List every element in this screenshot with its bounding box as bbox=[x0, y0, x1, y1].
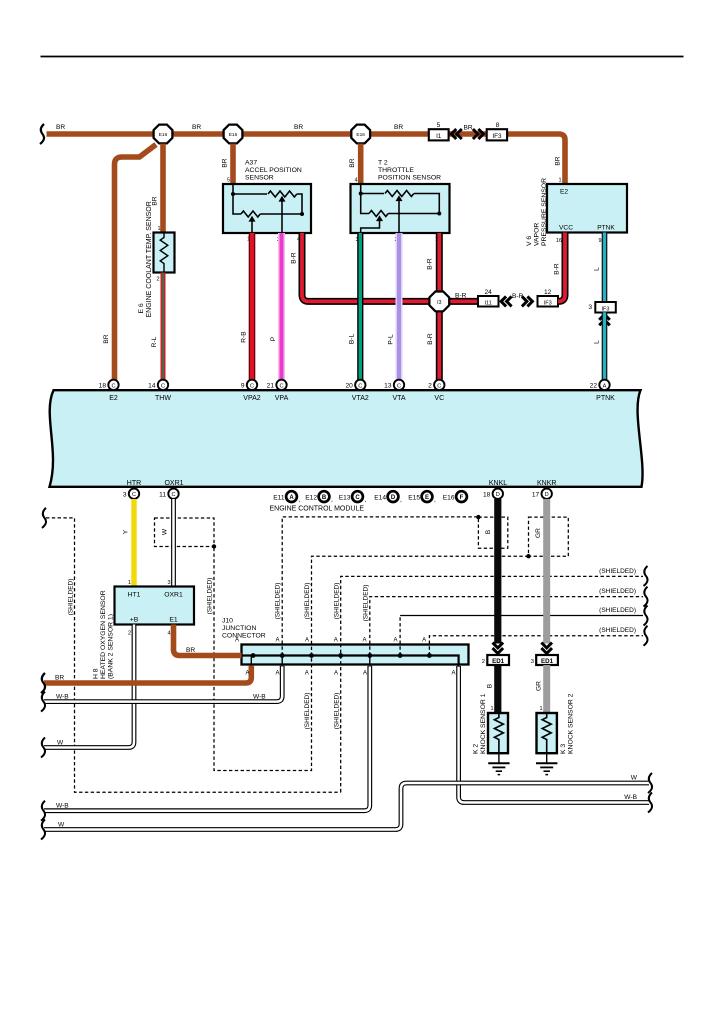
K2 resistor bbox=[494, 713, 503, 754]
svg-text:B: B bbox=[322, 495, 327, 501]
svg-text:(SHIELDED): (SHIELDED) bbox=[363, 585, 370, 622]
shield dashed vertical through J10 up to right margin line 1 bbox=[341, 576, 643, 792]
shield line solid from J10 to right margin line 3 bbox=[399, 616, 401, 656]
svg-text:C: C bbox=[358, 383, 362, 389]
svg-text:W-B: W-B bbox=[56, 803, 69, 810]
svg-text:THW: THW bbox=[155, 395, 171, 402]
svg-text:C: C bbox=[111, 383, 115, 389]
svg-text:W: W bbox=[631, 775, 638, 782]
wire B-L from T2 pin3 to VTA2 bbox=[357, 233, 363, 380]
pin 11 C OXR1 bbox=[159, 480, 183, 499]
svg-text:C: C bbox=[250, 383, 254, 389]
wire GR from KNKR down bbox=[543, 499, 550, 644]
svg-text:R-B: R-B bbox=[241, 331, 248, 343]
shield dashed from ECM line to knock B box bbox=[282, 517, 478, 656]
chevron arrows up-pointing bbox=[599, 315, 610, 326]
svg-text:B: B bbox=[485, 529, 492, 534]
pin 17 D KNKR bbox=[532, 480, 557, 499]
svg-text:22: 22 bbox=[590, 383, 598, 390]
break symbol right W-B bbox=[648, 793, 652, 813]
svg-text:3: 3 bbox=[167, 580, 170, 586]
svg-text:ED1: ED1 bbox=[492, 658, 505, 665]
ground symbol K3 bbox=[536, 754, 557, 775]
pin 20 C VTA2 bbox=[345, 380, 368, 402]
wire W from +B down to left margin bbox=[44, 625, 134, 748]
sensor E6 ENGINE COOLANT TEMP SENSOR box bbox=[154, 233, 175, 273]
J10 bus dots bbox=[251, 653, 256, 658]
ground pin E16 F bbox=[443, 491, 467, 502]
svg-text:PTNK: PTNK bbox=[596, 395, 615, 402]
svg-text:BR: BR bbox=[55, 675, 64, 682]
sensor T2 THROTTLE POSITION SENSOR box bbox=[351, 184, 450, 233]
svg-text:I1: I1 bbox=[436, 133, 442, 140]
break symbol left W-B lower bbox=[41, 801, 45, 821]
svg-text:L: L bbox=[594, 340, 601, 344]
wire W-B from J10 down-left to left margin bbox=[44, 666, 282, 702]
svg-text:3: 3 bbox=[588, 304, 592, 311]
break symbol left W bbox=[41, 738, 45, 758]
svg-text:14: 14 bbox=[148, 383, 156, 390]
node dot B box corner bbox=[476, 515, 480, 519]
connector ED1 on GR wire pin 3 bbox=[531, 655, 558, 665]
svg-text:ED1: ED1 bbox=[541, 658, 554, 665]
svg-text:9: 9 bbox=[598, 238, 601, 244]
ground pin E12 B bbox=[305, 491, 333, 503]
pin 2 C VC bbox=[428, 380, 444, 402]
wire Y from HTR to HT1 bbox=[131, 499, 136, 587]
pin 18 D KNKL bbox=[483, 480, 507, 499]
svg-text:JUNCTION: JUNCTION bbox=[222, 625, 256, 632]
svg-text:BR: BR bbox=[294, 124, 303, 131]
svg-text:C: C bbox=[397, 383, 401, 389]
svg-text:+B: +B bbox=[130, 617, 139, 624]
wiper arrow A37 R1 bbox=[279, 196, 286, 202]
junction I3 octagon bbox=[429, 292, 449, 312]
svg-text:W: W bbox=[162, 528, 169, 535]
svg-text:2: 2 bbox=[156, 277, 159, 283]
svg-text:IF3: IF3 bbox=[492, 133, 502, 140]
svg-text:(SHIELDED): (SHIELDED) bbox=[275, 583, 282, 620]
sensor K2 KNOCK SENSOR 1 box bbox=[488, 713, 508, 753]
shield dashed: left outer loop from top-left break down and around bbox=[46, 518, 341, 792]
wire BR from E16-2 to A37 bbox=[230, 144, 236, 184]
svg-text:(SHIELDED): (SHIELDED) bbox=[304, 583, 311, 620]
A37 internal circuit bbox=[233, 184, 302, 233]
T2 internal circuit bbox=[361, 184, 440, 233]
svg-text:C: C bbox=[279, 383, 283, 389]
sensor K3 KNOCK SENSOR 2 box bbox=[537, 713, 557, 753]
svg-text:W-B: W-B bbox=[253, 694, 266, 701]
svg-text:(SHIELDED): (SHIELDED) bbox=[599, 627, 636, 634]
svg-text:A: A bbox=[275, 671, 279, 677]
node dot A37 left bbox=[231, 192, 235, 196]
svg-text:9: 9 bbox=[241, 383, 245, 390]
svg-text:VTA: VTA bbox=[392, 395, 405, 402]
connector IF3 pin 3 on PTNK wire bbox=[588, 302, 615, 313]
svg-text:,: , bbox=[434, 497, 436, 504]
wire BR diagonal from E16-1 to E2 rail bbox=[115, 145, 157, 380]
svg-text:B-R: B-R bbox=[291, 252, 298, 264]
svg-text:BR: BR bbox=[222, 158, 229, 167]
svg-text:P: P bbox=[270, 336, 277, 341]
svg-text:BR: BR bbox=[555, 156, 562, 165]
connector IF3 pin 12 bbox=[538, 289, 559, 307]
break symbol top-left shield bbox=[42, 508, 46, 528]
wire BR from left margin to J10 bottom bbox=[44, 666, 251, 683]
svg-text:B-R: B-R bbox=[427, 258, 434, 270]
svg-text:(SHIELDED): (SHIELDED) bbox=[599, 568, 636, 575]
svg-text:E16: E16 bbox=[356, 132, 365, 138]
svg-text:I3: I3 bbox=[437, 300, 441, 306]
svg-text:R-L: R-L bbox=[151, 336, 158, 347]
node dot T2 left bbox=[359, 192, 363, 196]
svg-text:E: E bbox=[425, 495, 429, 501]
svg-text:K 2: K 2 bbox=[473, 744, 480, 754]
junction E16 octagon 2 bbox=[224, 125, 243, 144]
svg-text:OXR1: OXR1 bbox=[164, 592, 183, 599]
svg-text:E16: E16 bbox=[229, 132, 238, 138]
wire W-B from left margin up to J10 bbox=[44, 666, 370, 811]
svg-text:IF3: IF3 bbox=[544, 301, 552, 307]
svg-text:PRESSURE SENSOR: PRESSURE SENSOR bbox=[541, 178, 548, 246]
svg-text:(SHIELDED): (SHIELDED) bbox=[304, 693, 311, 730]
svg-text:C: C bbox=[132, 492, 136, 498]
svg-text:BR: BR bbox=[394, 124, 403, 131]
svg-text:D: D bbox=[391, 495, 396, 501]
svg-text:GR: GR bbox=[536, 681, 543, 691]
svg-text:B-R: B-R bbox=[554, 263, 561, 275]
svg-text:F: F bbox=[460, 495, 464, 501]
svg-text:4: 4 bbox=[167, 631, 170, 637]
wiper arrow T2 R2 bbox=[376, 215, 383, 221]
wire R-B from A37 pin1 to VPA2 bbox=[249, 233, 256, 380]
node dot shield W box corner bbox=[212, 544, 216, 548]
pin 9 C VPA2 bbox=[241, 380, 261, 402]
pin 22 A PTNK bbox=[590, 380, 616, 402]
junction E16 octagon 3 bbox=[351, 125, 370, 144]
wiper arrow T2 R1 bbox=[396, 195, 403, 201]
wire B-R from T2 pin1 down to junction I3 bbox=[436, 233, 443, 293]
svg-text:,: , bbox=[365, 497, 367, 504]
svg-text:PTNK: PTNK bbox=[597, 225, 615, 232]
svg-text:VC: VC bbox=[434, 395, 444, 402]
wire W-B from J10 right end down to right margin bbox=[459, 666, 649, 803]
wire B from KNKL down bbox=[494, 499, 501, 644]
svg-text:3: 3 bbox=[123, 492, 127, 499]
svg-text:(SHIELDED): (SHIELDED) bbox=[207, 578, 214, 615]
svg-text:8: 8 bbox=[496, 122, 500, 129]
wire BR from E16-3 to T2 bbox=[358, 144, 364, 184]
svg-text:D: D bbox=[496, 492, 500, 498]
connector I11 pin 24 bbox=[478, 289, 499, 307]
svg-text:D: D bbox=[545, 492, 549, 498]
J10 bus line bbox=[242, 656, 459, 667]
E6 resistor bbox=[160, 233, 168, 273]
svg-text:V 6: V 6 bbox=[526, 236, 533, 246]
svg-text:E14: E14 bbox=[374, 495, 386, 502]
svg-text:2: 2 bbox=[482, 659, 485, 665]
svg-text:E15: E15 bbox=[408, 495, 420, 502]
svg-text:VTA2: VTA2 bbox=[352, 395, 369, 402]
pin 3 C HTR bbox=[123, 480, 141, 499]
svg-text:W-B: W-B bbox=[624, 794, 637, 801]
connector IF3 pin 8 bbox=[487, 122, 507, 140]
ground symbol K2 bbox=[488, 754, 509, 775]
junction connector J10 bar bbox=[242, 645, 469, 665]
svg-text:W-B: W-B bbox=[56, 694, 69, 701]
chevron arrows left-pointing bbox=[501, 296, 512, 306]
svg-text:13: 13 bbox=[384, 383, 392, 390]
svg-text:BR: BR bbox=[192, 124, 201, 131]
shield dashed box around knock sensor2 GR wire bbox=[529, 517, 569, 556]
svg-text:24: 24 bbox=[485, 289, 493, 296]
break symbol left end of BR bus bbox=[40, 124, 44, 144]
svg-text:VCC: VCC bbox=[559, 225, 573, 232]
svg-text:E11: E11 bbox=[273, 495, 285, 502]
svg-text:A: A bbox=[334, 671, 338, 677]
svg-text:A: A bbox=[334, 638, 338, 644]
svg-text:W: W bbox=[57, 740, 64, 747]
chevron arrows left-pointing bbox=[451, 129, 462, 139]
svg-text:A: A bbox=[603, 383, 607, 389]
svg-text:A: A bbox=[422, 638, 426, 644]
svg-text:C: C bbox=[355, 495, 360, 501]
junction E16 octagon 1 bbox=[154, 125, 173, 144]
svg-text:A: A bbox=[235, 638, 239, 644]
connector ED1 on B wire pin 2 bbox=[482, 655, 509, 665]
pin 14 C THW bbox=[148, 380, 171, 402]
node dot T2 right bbox=[437, 212, 441, 216]
wire B from ED1 to K2 bbox=[494, 665, 501, 713]
svg-text:VPA2: VPA2 bbox=[243, 395, 260, 402]
svg-text:KNOCK SENSOR 2: KNOCK SENSOR 2 bbox=[568, 693, 575, 754]
svg-text:20: 20 bbox=[345, 383, 353, 390]
connector I1 pin 5 bbox=[429, 122, 449, 140]
svg-text:A: A bbox=[393, 638, 397, 644]
svg-text:18: 18 bbox=[483, 492, 491, 499]
svg-text:I11: I11 bbox=[485, 301, 492, 307]
svg-text:P-L: P-L bbox=[388, 334, 395, 345]
shield dashed from J10 to right margin line 2 bbox=[370, 597, 643, 656]
svg-text:J10: J10 bbox=[222, 618, 233, 625]
svg-text:E16: E16 bbox=[443, 495, 455, 502]
svg-text:E 6: E 6 bbox=[138, 303, 145, 313]
svg-text:E2: E2 bbox=[560, 189, 568, 196]
svg-text:(SHIELDED): (SHIELDED) bbox=[334, 693, 341, 730]
svg-text:W: W bbox=[58, 822, 65, 829]
shield dashed box around knock sensor1 B wire bbox=[478, 517, 507, 548]
svg-text:C: C bbox=[437, 383, 441, 389]
svg-text:(SHIELDED): (SHIELDED) bbox=[599, 607, 636, 614]
shield dashed from J10 to right margin line 4 bbox=[429, 636, 643, 656]
break symbol left W-B bbox=[41, 692, 45, 712]
svg-text:,: , bbox=[400, 497, 402, 504]
svg-text:E2: E2 bbox=[109, 395, 118, 402]
sensor H8 HEATED OXYGEN SENSOR box bbox=[115, 587, 195, 625]
wire BR main bus bbox=[47, 134, 566, 184]
svg-text:BR: BR bbox=[186, 647, 195, 654]
sensor A37 ACCEL POSITION SENSOR box bbox=[223, 184, 311, 233]
svg-text:11: 11 bbox=[159, 492, 166, 499]
svg-text:L: L bbox=[594, 267, 601, 271]
svg-text:2: 2 bbox=[128, 631, 131, 637]
svg-text:ENGINE CONTROL MODULE: ENGINE CONTROL MODULE bbox=[270, 504, 365, 513]
svg-text:C: C bbox=[171, 492, 175, 498]
svg-text:HTR: HTR bbox=[127, 480, 141, 487]
svg-text:21: 21 bbox=[267, 383, 275, 390]
chevron arrows down-pointing on B wire bbox=[493, 643, 504, 654]
pin 18 C E2 bbox=[99, 380, 119, 402]
ground pin E15 E bbox=[408, 491, 436, 503]
ENGINE CONTROL MODULE band bbox=[50, 390, 643, 487]
svg-text:SENSOR: SENSOR bbox=[245, 175, 274, 182]
svg-text:1: 1 bbox=[490, 706, 493, 712]
wire W from OXR1 ECM to H8 bbox=[171, 499, 176, 587]
svg-text:VPA: VPA bbox=[275, 395, 289, 402]
svg-text:18: 18 bbox=[99, 383, 107, 390]
svg-text:12: 12 bbox=[544, 289, 552, 296]
svg-text:BR: BR bbox=[464, 125, 473, 132]
shield dashed from GR box via J10 down-around to W box bbox=[214, 547, 529, 771]
svg-text:KNKR: KNKR bbox=[537, 480, 556, 487]
wire B-R junction I3 down to VC bbox=[436, 310, 443, 380]
svg-text:C: C bbox=[161, 383, 165, 389]
svg-text:KNOCK SENSOR 1: KNOCK SENSOR 1 bbox=[480, 693, 487, 754]
svg-text:A: A bbox=[362, 638, 366, 644]
svg-text:ENGINE COOLANT TEMP. SENSOR: ENGINE COOLANT TEMP. SENSOR bbox=[146, 201, 153, 317]
svg-text:(SHIELDED): (SHIELDED) bbox=[68, 579, 75, 616]
svg-text:K 3: K 3 bbox=[560, 744, 567, 754]
svg-text:Y: Y bbox=[123, 529, 130, 534]
svg-text:HEATED OXYGEN SENSOR: HEATED OXYGEN SENSOR bbox=[100, 590, 107, 679]
svg-text:E13: E13 bbox=[339, 495, 351, 502]
break symbol left BR bbox=[41, 673, 45, 693]
svg-text:BR: BR bbox=[103, 334, 110, 343]
wire B-R junction I3 right to I11 bbox=[448, 298, 478, 305]
wire GR from ED1 to K3 bbox=[543, 665, 550, 713]
svg-text:CONNECTOR: CONNECTOR bbox=[222, 632, 266, 639]
ground pin E14 D bbox=[374, 491, 402, 503]
pin 13 C VTA bbox=[384, 380, 406, 402]
svg-text:5: 5 bbox=[227, 178, 230, 184]
break symbols right margin shield lines bbox=[644, 566, 648, 586]
svg-text:BR: BR bbox=[56, 124, 65, 131]
K3 resistor bbox=[542, 713, 551, 754]
svg-text:,: , bbox=[331, 497, 333, 504]
svg-text:B-L: B-L bbox=[349, 334, 356, 345]
svg-text:16: 16 bbox=[556, 238, 562, 244]
svg-text:A: A bbox=[275, 638, 279, 644]
break symbol left W bottom bbox=[41, 820, 45, 840]
svg-text:E16: E16 bbox=[159, 132, 168, 138]
svg-text:IF3: IF3 bbox=[601, 307, 609, 313]
wire B-R from IF3 up to VCC bbox=[558, 233, 565, 302]
wire L from IF3 down to ECM PTNK bbox=[602, 312, 608, 380]
node dot GR box corner bbox=[526, 554, 530, 558]
svg-text:HT1: HT1 bbox=[128, 592, 141, 599]
svg-text:A: A bbox=[305, 638, 309, 644]
svg-text:2: 2 bbox=[428, 383, 432, 390]
svg-text:OXR1: OXR1 bbox=[164, 480, 183, 487]
svg-text:4: 4 bbox=[354, 178, 357, 184]
svg-text:H 8: H 8 bbox=[93, 668, 100, 679]
svg-text:A: A bbox=[451, 671, 455, 677]
svg-text:A37: A37 bbox=[245, 160, 257, 167]
wire BR from E16-1 down to coolant sensor bbox=[160, 144, 166, 233]
svg-text:(SHIELDED): (SHIELDED) bbox=[599, 588, 636, 595]
svg-text:(SHIELDED): (SHIELDED) bbox=[334, 583, 341, 620]
wire P-L from T2 pin2 to VTA bbox=[396, 233, 403, 380]
svg-text:A: A bbox=[363, 671, 367, 677]
wire L from PTNK pin of V6 down bbox=[602, 233, 608, 303]
svg-text:A: A bbox=[289, 495, 294, 501]
svg-text:B: B bbox=[487, 683, 494, 688]
wire B-R from A37 pin4 to junction I3 bbox=[302, 233, 429, 301]
svg-text:1: 1 bbox=[157, 226, 160, 232]
wire R-L from E6 to THW bbox=[161, 273, 166, 380]
svg-text:BR: BR bbox=[349, 158, 356, 167]
svg-text:THROTTLE: THROTTLE bbox=[378, 167, 414, 174]
svg-text:1: 1 bbox=[128, 580, 131, 586]
svg-text:(BANK 2 SENSOR 1): (BANK 2 SENSOR 1) bbox=[108, 614, 115, 679]
svg-text:17: 17 bbox=[532, 492, 540, 499]
svg-text:1: 1 bbox=[558, 178, 561, 184]
wire BR from E1 to J10 bbox=[174, 625, 242, 656]
svg-text:ACCEL POSITION: ACCEL POSITION bbox=[245, 167, 302, 174]
chevron arrows right-pointing bbox=[473, 129, 484, 139]
svg-text:VAPOR: VAPOR bbox=[534, 223, 541, 246]
svg-text:E1: E1 bbox=[169, 617, 178, 624]
J10 connector stubs bbox=[250, 656, 252, 666]
svg-text:A: A bbox=[245, 671, 249, 677]
svg-text:POSITION SENSOR: POSITION SENSOR bbox=[378, 175, 441, 182]
wire P from A37 pin2 to VPA bbox=[278, 233, 285, 380]
top rule bbox=[41, 56, 684, 58]
break symbol right W bbox=[648, 773, 652, 793]
svg-text:5: 5 bbox=[437, 122, 441, 129]
svg-text:E12: E12 bbox=[305, 495, 317, 502]
svg-text:GR: GR bbox=[535, 528, 542, 538]
chevron arrows right-pointing bbox=[522, 296, 533, 306]
svg-text:T 2: T 2 bbox=[378, 160, 388, 167]
ground pin E13 C bbox=[339, 491, 367, 503]
svg-text:3: 3 bbox=[531, 659, 534, 665]
wiper arrow A37 R2 bbox=[249, 216, 256, 222]
pin 21 C VPA bbox=[267, 380, 289, 402]
node dot A37 right bbox=[300, 212, 304, 216]
svg-text:B-R: B-R bbox=[512, 293, 524, 300]
wire W from left margin jog to right margin bbox=[44, 783, 649, 830]
svg-text:,: , bbox=[299, 497, 301, 504]
svg-text:B-R: B-R bbox=[427, 333, 434, 345]
shield dashed box around OXR1 wire bbox=[155, 518, 215, 547]
svg-text:1: 1 bbox=[539, 706, 542, 712]
V6 VAPOR PRESSURE SENSOR box bbox=[547, 184, 627, 233]
svg-text:A: A bbox=[305, 671, 309, 677]
svg-text:B-R: B-R bbox=[455, 293, 467, 300]
chevron arrows down-pointing on GR wire bbox=[541, 643, 552, 654]
ground pin E11 A bbox=[273, 491, 300, 503]
svg-text:KNKL: KNKL bbox=[489, 480, 507, 487]
